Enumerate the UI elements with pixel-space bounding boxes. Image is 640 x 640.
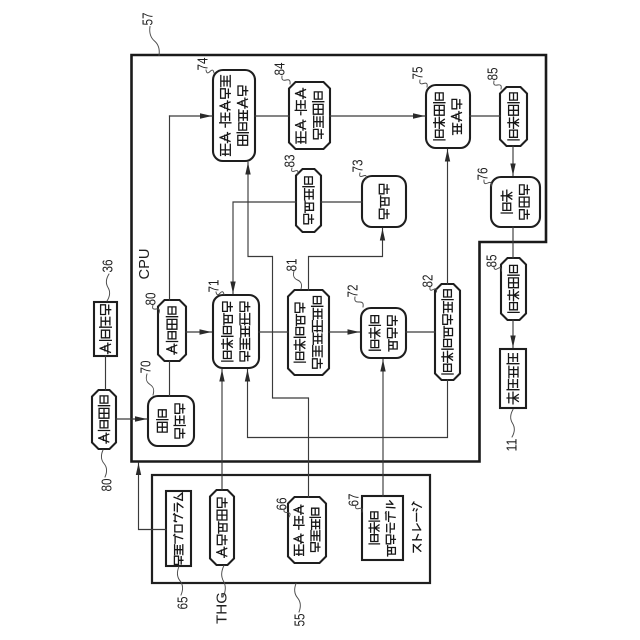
wire 82 to 71 feedback (arrow) [245, 370, 448, 438]
svg-text:55: 55 [292, 614, 309, 627]
CPU main box (57) [132, 55, 547, 462]
wire inner 80 up to bus [169, 116, 171, 300]
svg-text:71: 71 [206, 280, 223, 293]
wire 84 to 75 (arrow) [330, 113, 425, 118]
label 55 [292, 584, 309, 627]
label 80 inner [143, 293, 160, 314]
svg-text:85: 85 [484, 255, 501, 268]
label 66 [274, 498, 291, 518]
label 75 [410, 67, 428, 88]
delivery image 85 (lower) [501, 258, 526, 320]
operation program 65 [166, 491, 191, 566]
label 36 [100, 260, 117, 302]
svg-text:74: 74 [195, 58, 212, 71]
wire 82 to 75 (arrow) [445, 150, 450, 285]
svg-text:36: 36 [100, 260, 117, 273]
wire 66 to 74 (arrow) [245, 163, 308, 498]
svg-text:57: 57 [140, 13, 157, 26]
svg-text:73: 73 [350, 160, 367, 173]
wire 71 to 81 [259, 331, 288, 333]
wire bus into 74 (arrow) [170, 113, 213, 118]
svg-text:66: 66 [274, 498, 291, 511]
label 73 [350, 160, 367, 180]
label 67 [346, 494, 363, 513]
svg-text:75: 75 [410, 67, 427, 80]
image processing unit 70 [148, 396, 194, 446]
label 74 [195, 58, 215, 74]
label 65 [175, 567, 192, 610]
display/storage area image 84 [289, 82, 330, 149]
management apparatus 11 [500, 349, 526, 408]
label 57 [140, 13, 160, 56]
wire THG to 71 (arrow) [219, 370, 224, 491]
svg-text:THG: THG [214, 592, 231, 624]
wire 67 to 72 (arrow) [380, 360, 385, 497]
label 84 [272, 63, 291, 85]
wire 74 to 84 [255, 115, 289, 117]
wire inner 80 to 71 (arrow) [186, 329, 212, 334]
image sensor box 36 [94, 302, 117, 356]
svg-text:85: 85 [485, 68, 502, 81]
svg-text:82: 82 [420, 275, 437, 288]
wire 75 to 85 upper [470, 115, 500, 117]
timer unit 73 [362, 176, 406, 227]
wire 36 to 80 [105, 356, 107, 390]
label 76 [475, 168, 492, 187]
captured image data 80 (inner) [158, 300, 186, 361]
wire 65 to CPU (arrow) [136, 463, 166, 530]
svg-text:CPU: CPU [136, 249, 153, 280]
display/storage area info 66 [288, 497, 326, 563]
label 81 [284, 259, 302, 290]
wire 83 to 73 [321, 201, 362, 203]
label 80 outer [99, 450, 116, 492]
label 82 [420, 275, 437, 293]
subject detection area setting info 81 [288, 290, 329, 375]
svg-text:80: 80 [99, 479, 116, 492]
subject detection unit 72 [361, 308, 406, 358]
label 83 [282, 155, 299, 175]
label THG [214, 566, 231, 625]
delivery control unit 76 [491, 177, 540, 227]
svg-text:83: 83 [282, 155, 299, 168]
label 85 lower [484, 255, 502, 272]
label 70 [138, 361, 155, 396]
wire 81 to 73 (arrow) [309, 229, 386, 291]
svg-text:65: 65 [175, 597, 192, 610]
svg-text:11: 11 [504, 439, 521, 452]
wire 81 to 72 (arrow) [329, 329, 360, 334]
label 11 [504, 410, 521, 452]
wire 85 upper to 76 (arrow) [510, 146, 515, 176]
wire 72 to 82 [406, 331, 435, 333]
timing info 83 [296, 169, 321, 232]
wire 83 to 71 (arrow) [230, 202, 296, 294]
wire 80 to 70 (arrow) [116, 416, 147, 421]
threshold time group THG [210, 490, 234, 565]
svg-text:72: 72 [345, 285, 362, 298]
display/storage area image generation unit 74 [213, 70, 255, 161]
svg-text:81: 81 [284, 259, 301, 272]
label 71 [206, 280, 225, 295]
wire 85 lower to 11 (arrow) [510, 320, 515, 348]
wire 70 to inner 80 [169, 361, 171, 396]
svg-text:80: 80 [143, 293, 160, 306]
svg-text:67: 67 [346, 494, 363, 507]
label 85 upper [485, 68, 502, 90]
captured image data 80 (outer) [92, 390, 116, 449]
svg-text:70: 70 [138, 361, 155, 374]
delivery image 85 (upper) [500, 87, 527, 146]
label 72 [345, 285, 364, 308]
svg-text:84: 84 [272, 63, 289, 76]
delivery image generation unit 75 [426, 85, 470, 148]
storage box (55) [152, 475, 430, 583]
subject detection info 82 [435, 284, 460, 380]
wire 76 to 85 lower [512, 227, 514, 258]
CPU text label [136, 249, 153, 280]
svg-text:76: 76 [475, 168, 492, 181]
subject detection area setting unit 71 [213, 295, 259, 368]
subject detection model 67 [362, 496, 403, 560]
